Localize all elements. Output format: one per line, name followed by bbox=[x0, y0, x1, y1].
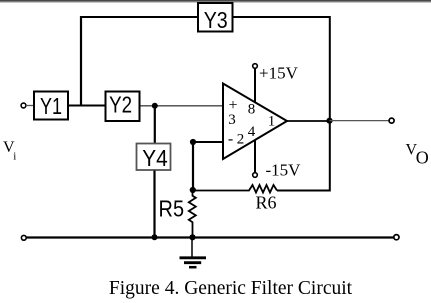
svg-text:O: O bbox=[416, 148, 429, 168]
input terminal bbox=[21, 103, 26, 108]
block Y1 bbox=[34, 92, 68, 120]
svg-text:Y1: Y1 bbox=[40, 93, 62, 119]
svg-text:3: 3 bbox=[228, 112, 236, 128]
-15V terminal bbox=[253, 140, 301, 180]
node D junction R5 R6 bbox=[190, 187, 196, 193]
wire node C down to node D bbox=[192, 142, 194, 191]
svg-text:Y4: Y4 bbox=[142, 145, 168, 171]
wire Y1 to Y2 bbox=[69, 105, 105, 107]
block Y4 bbox=[137, 144, 171, 172]
bottom rail bbox=[26, 236, 394, 238]
svg-text:Y2: Y2 bbox=[109, 92, 132, 118]
wire inverting input bbox=[193, 141, 223, 143]
wire feedback vertical (Y3/output to R6) bbox=[277, 16, 330, 191]
wire Y4 down to ground rail bbox=[153, 171, 155, 238]
wire branch from node A up to top rail bbox=[80, 16, 82, 107]
svg-text:8: 8 bbox=[248, 102, 256, 118]
output terminal bbox=[389, 118, 394, 123]
svg-text:i: i bbox=[13, 151, 16, 163]
bottom right terminal bbox=[394, 235, 399, 240]
+15V terminal bbox=[253, 64, 299, 104]
svg-text:4: 4 bbox=[248, 124, 256, 140]
resistor R6 bbox=[193, 185, 277, 213]
svg-text:+15V: +15V bbox=[259, 64, 299, 83]
svg-text:R5: R5 bbox=[159, 196, 185, 222]
label VO bbox=[406, 141, 429, 167]
wire node B down to Y4 bbox=[154, 106, 156, 144]
wire op-amp output to node F bbox=[287, 120, 330, 122]
svg-text:Y3: Y3 bbox=[204, 7, 228, 33]
wire input lead to Y1 bbox=[26, 105, 34, 107]
node F output junction bbox=[326, 118, 332, 124]
svg-text:-15V: -15V bbox=[266, 161, 302, 180]
block Y3 bbox=[198, 3, 233, 33]
svg-text:R6: R6 bbox=[255, 193, 276, 213]
block Y2 bbox=[106, 92, 140, 122]
node E junction R5 and bottom rail bbox=[189, 234, 195, 240]
resistor R5 bbox=[159, 190, 196, 238]
node B junction after Y2 bbox=[152, 103, 158, 109]
node junction Y4 and bottom rail bbox=[152, 234, 158, 240]
wire top rail right (Y3 to feedback line) bbox=[233, 16, 331, 18]
svg-text:Figure 4. Generic Filter Circu: Figure 4. Generic Filter Circuit bbox=[109, 278, 353, 299]
wire node F to output terminal bbox=[330, 120, 390, 122]
wire top rail left (node A to Y3) bbox=[81, 16, 198, 18]
label Vi bbox=[3, 139, 16, 163]
svg-text:-: - bbox=[228, 131, 233, 148]
wire Y2 to op-amp noninverting input bbox=[141, 105, 224, 107]
ground bbox=[180, 238, 207, 268]
node C inverting corner junction bbox=[190, 139, 196, 145]
svg-text:2: 2 bbox=[237, 132, 245, 148]
bottom left terminal bbox=[21, 235, 26, 240]
svg-text:1: 1 bbox=[268, 114, 276, 130]
op-amp U1 bbox=[223, 84, 287, 160]
